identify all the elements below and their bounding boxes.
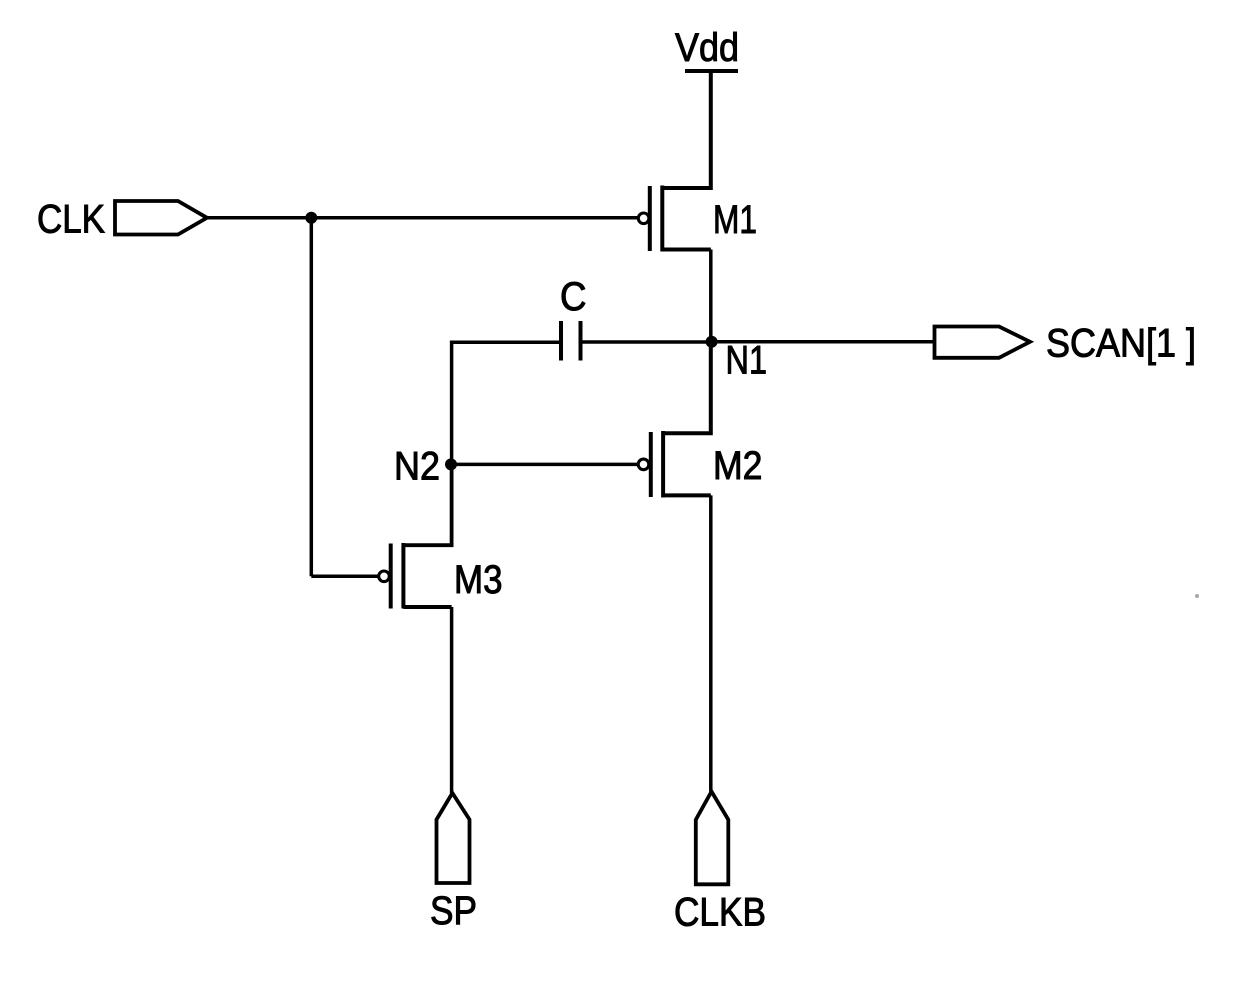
capacitor C [560,275,587,360]
node CLK junction [305,212,317,224]
svg-text:CLKB: CLKB [674,891,766,935]
svg-text:CLK: CLK [37,198,105,242]
wire M3 source to SP input [450,607,454,793]
wire capacitor left plate to node N2 [452,342,559,464]
pin SP input [430,793,477,933]
wire node N1 to SCAN output [712,340,935,344]
wire capacitor right plate to node N1 [582,340,712,344]
svg-text:M3: M3 [454,558,503,602]
svg-text:SCAN[1 ]: SCAN[1 ] [1046,322,1196,366]
wire CLK junction down [310,218,314,577]
wire node N2 to M3 drain [403,464,451,545]
wire to M3 gate [311,575,378,579]
node N2 [394,445,457,489]
wire M2 drain to CLKB input [709,495,713,791]
transistor M1 [638,186,757,252]
transistor M2 [638,431,762,498]
svg-text:N1: N1 [726,338,768,382]
transistor M3 [379,543,503,609]
wire node N2 to M2 gate [451,463,639,467]
pin SCAN[1] output [935,322,1197,366]
power Vdd [675,26,739,71]
svg-text:Vdd: Vdd [675,26,739,70]
svg-text:C: C [560,275,587,319]
svg-text:SP: SP [430,889,477,933]
pin CLKB input [674,792,766,935]
wire node N1 to M2 source [663,342,711,433]
svg-text:N2: N2 [394,445,440,489]
svg-text:M2: M2 [713,444,763,488]
pin CLK input [37,198,207,242]
node N1 [706,336,767,383]
wire Vdd to M1 source [662,71,711,188]
scan speck artifact [1195,594,1199,598]
wire CLK to M1 gate [207,216,638,220]
svg-text:M1: M1 [713,198,757,242]
wire M1 drain to node N1 [709,250,713,342]
